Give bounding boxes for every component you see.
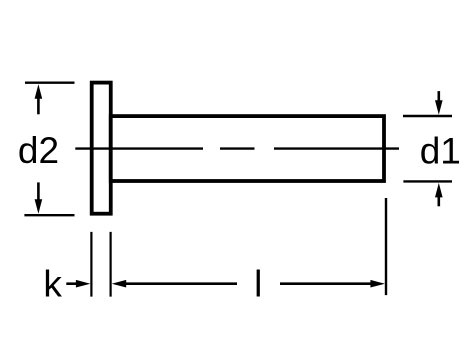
dimension l: right extension line	[385, 198, 387, 295]
dimension d1: bottom extension line	[403, 180, 452, 182]
svg-text:d2: d2	[18, 130, 59, 171]
dimension k: arrow pointing right	[66, 280, 90, 288]
dimension l: right segment with arrow (points right)	[280, 280, 385, 288]
dimension k: left extension line	[90, 232, 92, 297]
dimension d2: upper arrow (points up)	[35, 84, 43, 114]
dimension d2: lower arrow (points down)	[35, 182, 43, 213]
svg-text:d1: d1	[420, 131, 461, 172]
dimension d1: upper arrow (points down to line)	[435, 91, 443, 115]
rivet head (side view rectangle)	[92, 83, 111, 214]
dimension d1: lower arrow (points up to line)	[435, 183, 443, 206]
dimension d2: bottom extension line	[24, 214, 74, 216]
dimension l: left arrow (points left)	[112, 280, 237, 288]
dimension d1: top extension line	[403, 115, 452, 117]
rivet shank (side view rectangle)	[111, 116, 384, 181]
dimension k: right extension line (shared with l)	[109, 232, 111, 297]
svg-text:l: l	[254, 264, 262, 305]
dimension d2: top extension line	[25, 81, 75, 83]
center line (dash-dot axis)	[75, 147, 399, 149]
svg-text:k: k	[43, 263, 62, 304]
